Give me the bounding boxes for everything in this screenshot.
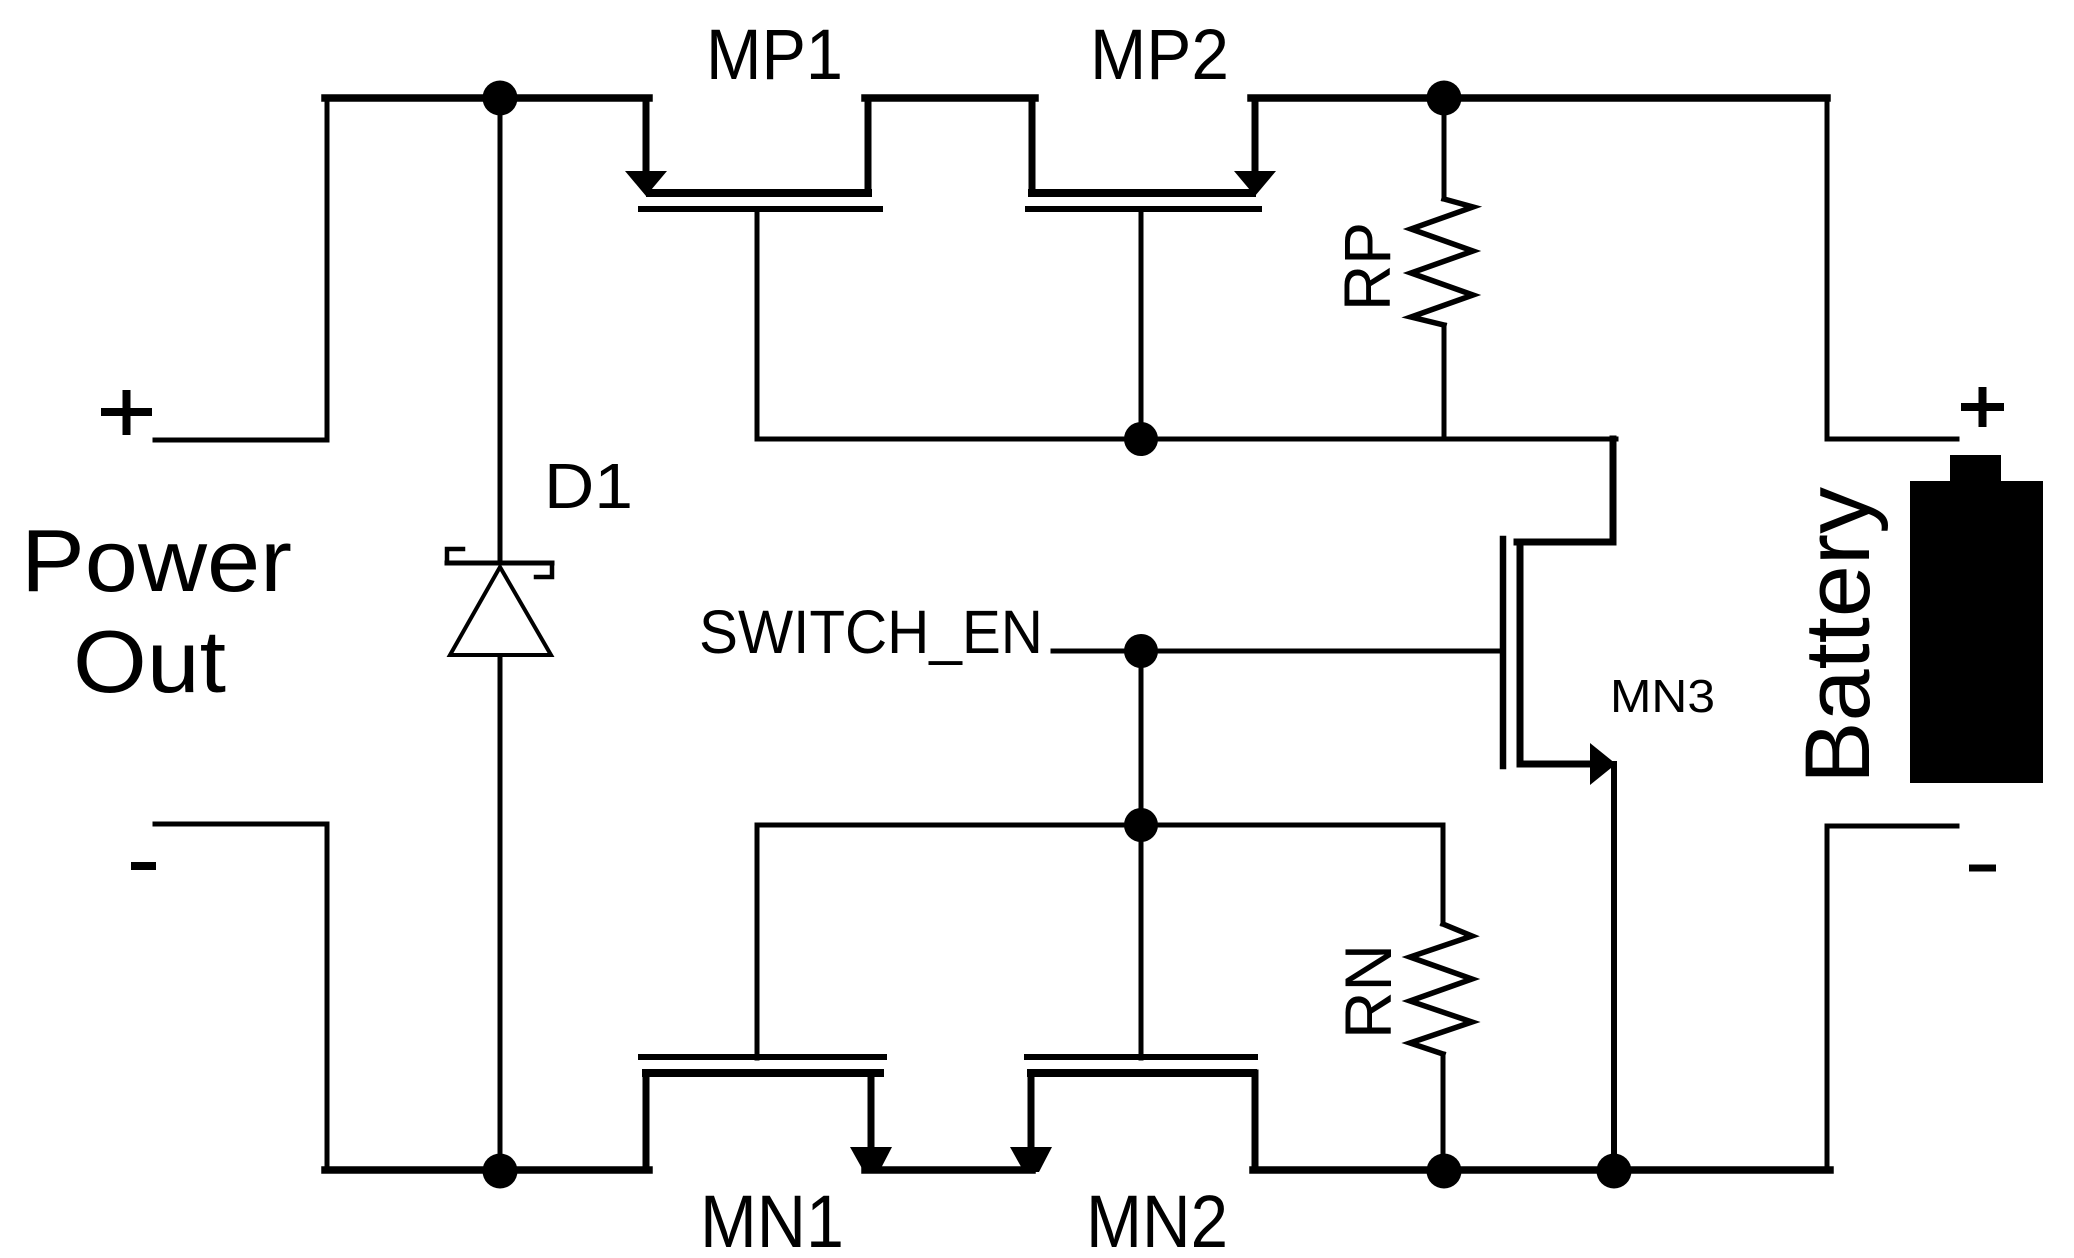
svg-text:RP: RP xyxy=(1330,222,1404,311)
svg-text:Out: Out xyxy=(73,612,226,711)
svg-text:MP2: MP2 xyxy=(1090,16,1229,95)
svg-text:MN1: MN1 xyxy=(700,1180,844,1258)
svg-text:Power: Power xyxy=(21,511,292,610)
svg-text:RN: RN xyxy=(1331,944,1405,1039)
svg-text:MN2: MN2 xyxy=(1086,1180,1228,1258)
svg-text:MP1: MP1 xyxy=(706,16,843,95)
svg-text:Battery: Battery xyxy=(1787,487,1889,784)
svg-text:MN3: MN3 xyxy=(1610,670,1715,722)
svg-text:D1: D1 xyxy=(544,450,633,522)
svg-text:SWITCH_EN: SWITCH_EN xyxy=(699,598,1043,666)
